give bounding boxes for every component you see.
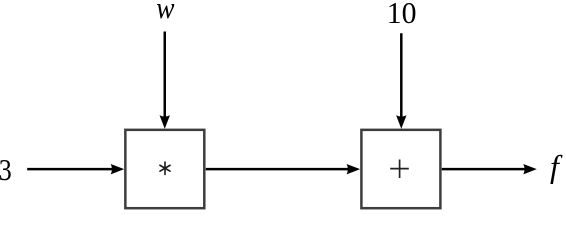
multiplier box U1 bbox=[125, 130, 204, 208]
arrow: 10 into adder bbox=[396, 33, 406, 129]
adder box U2 bbox=[361, 130, 440, 208]
plus symbol + bbox=[390, 160, 409, 179]
arrow: w into multiplier bbox=[160, 32, 170, 129]
output label f bbox=[550, 148, 563, 184]
input label w bbox=[156, 0, 174, 25]
input label 10 bbox=[387, 0, 417, 30]
arrow: adder to output f bbox=[442, 164, 537, 174]
arrow: input 3 to multiplier bbox=[27, 164, 124, 174]
asterisk symbol * bbox=[160, 162, 170, 175]
svg-text:w: w bbox=[156, 0, 174, 25]
wire: multiplier to adder bbox=[206, 164, 360, 174]
svg-text:3: 3 bbox=[0, 152, 12, 187]
input label 3 bbox=[0, 152, 12, 187]
svg-text:10: 10 bbox=[387, 0, 417, 30]
svg-text:f: f bbox=[550, 148, 563, 184]
